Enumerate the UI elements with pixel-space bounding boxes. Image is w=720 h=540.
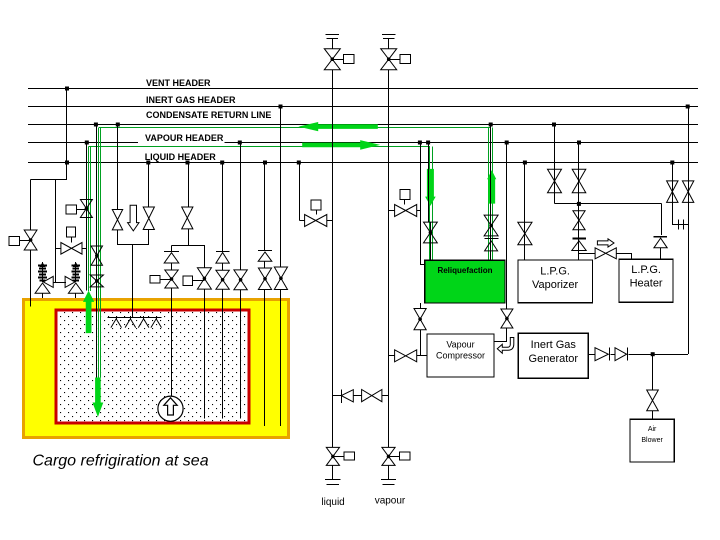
- svg-text:Generator: Generator: [529, 353, 579, 365]
- svg-text:INERT GAS HEADER: INERT GAS HEADER: [146, 95, 236, 105]
- svg-text:L.P.G.: L.P.G.: [631, 264, 661, 276]
- svg-text:Cargo refrigiration at sea: Cargo refrigiration at sea: [33, 453, 209, 470]
- svg-text:Air: Air: [648, 426, 657, 433]
- svg-text:Vapour: Vapour: [446, 339, 474, 349]
- svg-text:Reliquefaction: Reliquefaction: [437, 266, 492, 275]
- svg-text:CONDENSATE RETURN LINE: CONDENSATE RETURN LINE: [146, 110, 271, 120]
- svg-text:Blower: Blower: [641, 437, 663, 444]
- svg-text:VENT HEADER: VENT HEADER: [146, 78, 211, 88]
- svg-text:Heater: Heater: [630, 278, 663, 290]
- svg-text:liquid: liquid: [321, 497, 344, 508]
- svg-text:vapour: vapour: [375, 496, 406, 507]
- svg-text:Vaporizer: Vaporizer: [532, 279, 579, 291]
- svg-text:Inert Gas: Inert Gas: [531, 339, 577, 351]
- svg-text:L.P.G.: L.P.G.: [540, 266, 570, 278]
- svg-text:Compressor: Compressor: [436, 351, 485, 361]
- svg-text:VAPOUR HEADER: VAPOUR HEADER: [145, 133, 224, 143]
- svg-text:LIQUID HEADER: LIQUID HEADER: [145, 152, 217, 162]
